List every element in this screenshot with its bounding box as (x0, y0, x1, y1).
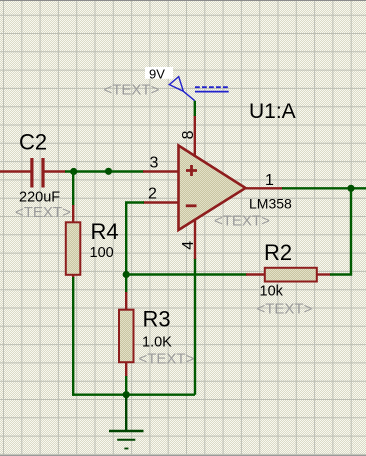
wire R3 to ground rail (125, 376, 127, 395)
wire R4 bottom pin (72, 275, 74, 278)
wire R2 to output (330, 188, 351, 274)
wire ground rail (72, 394, 195, 396)
svg-text:C2: C2 (19, 129, 47, 154)
svg-text:1: 1 (265, 172, 274, 189)
wire pin 4 stub (194, 218, 196, 259)
power rail marker (195, 87, 229, 91)
op-amp U1 body (179, 146, 246, 231)
svg-text:R3: R3 (143, 307, 171, 332)
svg-text:<TEXT>: <TEXT> (15, 204, 71, 221)
wire pin2 to inverting node (126, 203, 144, 294)
wire R3 bottom pin (125, 362, 127, 377)
svg-text:R2: R2 (264, 240, 292, 265)
junction output node (347, 185, 354, 192)
wire R2 left pin (246, 273, 266, 275)
svg-text:2: 2 (148, 186, 157, 203)
svg-text:4: 4 (180, 241, 197, 250)
wire R4 top pin (72, 205, 74, 223)
junction mid node (105, 168, 112, 175)
svg-text:3: 3 (150, 155, 159, 172)
capacitor C2 (30, 158, 66, 188)
wire ground stem (125, 395, 127, 431)
junction inverting node (123, 271, 130, 278)
svg-text:<TEXT>: <TEXT> (139, 351, 195, 368)
wire R4 to ground rail (72, 277, 74, 396)
svg-text:8: 8 (180, 130, 197, 139)
resistor R3 (119, 310, 134, 363)
svg-text:LM358: LM358 (249, 196, 292, 212)
wire pin 2 stub (143, 201, 180, 203)
power terminal 9V arrow (169, 77, 194, 101)
svg-text:10k: 10k (260, 284, 284, 300)
wire inverting node to R2 (126, 273, 247, 275)
svg-text:9V: 9V (149, 67, 165, 82)
wire pin4 to ground rail (194, 258, 196, 395)
ground (109, 431, 144, 449)
wire pin 8 stub (194, 115, 196, 157)
wire R3 top pin (125, 292, 127, 310)
label 9V (145, 67, 173, 82)
svg-text:U1:A: U1:A (249, 100, 296, 123)
op-amp minus marking (186, 204, 197, 207)
junction at R4 branch (70, 168, 77, 175)
svg-text:<TEXT>: <TEXT> (214, 213, 270, 230)
svg-text:100: 100 (90, 245, 114, 261)
wire R4 branch upper (72, 171, 74, 207)
svg-text:<TEXT>: <TEXT> (257, 300, 313, 317)
op-amp plus marking (186, 165, 197, 176)
junction ground node (123, 391, 130, 398)
wire output net (282, 187, 366, 189)
wire C2 to pin3 (65, 170, 144, 172)
resistor R2 (265, 268, 317, 282)
wire input to C2 (0, 170, 31, 172)
wire power to pin 8 (194, 101, 196, 116)
svg-text:<TEXT>: <TEXT> (104, 82, 160, 99)
wire output pin 1 (246, 187, 284, 189)
svg-text:1.0K: 1.0K (142, 334, 172, 350)
resistor R4 (66, 222, 81, 274)
svg-text:R4: R4 (91, 219, 119, 244)
wire pin 3 stub (143, 170, 180, 172)
wire R2 right pin (316, 273, 331, 275)
